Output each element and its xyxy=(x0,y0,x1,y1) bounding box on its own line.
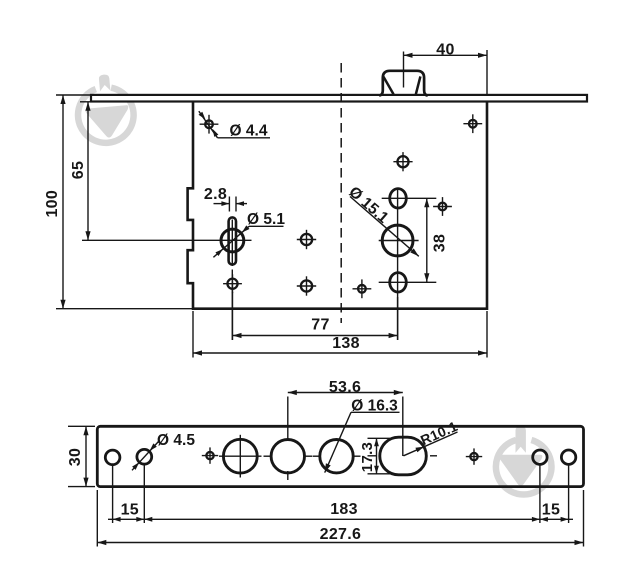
dimension 15 left arrows xyxy=(113,517,121,522)
dimension 65 line xyxy=(87,102,89,241)
dimension 30 extension bottom xyxy=(68,486,95,488)
svg-text:2.8: 2.8 xyxy=(204,186,227,203)
latch bevel left edge xyxy=(383,77,393,95)
watermark logo top-left xyxy=(75,72,136,145)
cylinder large circle Ø15.1 xyxy=(382,225,413,256)
plate hole C2 centerline xyxy=(143,464,145,523)
latch bevel right edge xyxy=(416,76,421,94)
svg-text:40: 40 xyxy=(436,42,454,59)
dimension 38 arrows xyxy=(424,198,429,207)
dimension 77 extension right xyxy=(397,297,399,340)
dimension 2.8 extension lines xyxy=(228,197,230,212)
hole crosshair H2 top-right xyxy=(469,120,477,128)
svg-text:53.6: 53.6 xyxy=(329,379,361,396)
dimension 30 line xyxy=(85,426,87,486)
dimension 17.3 arrows xyxy=(374,438,379,446)
dimension 227.6 extension right xyxy=(583,490,585,547)
label R10.1 leader xyxy=(404,432,458,456)
dimension 65 extension top xyxy=(80,101,95,103)
svg-text:227.6: 227.6 xyxy=(320,526,362,543)
svg-text:Ø 5.1: Ø 5.1 xyxy=(247,211,285,228)
label Ø5.1 leader xyxy=(213,226,249,257)
dimension 77 arrows xyxy=(233,333,242,338)
oval hole bottom xyxy=(390,273,407,292)
keyhole circle xyxy=(221,229,244,252)
centerline horizontal big circle xyxy=(379,240,419,242)
dimension 38 line xyxy=(426,198,428,282)
dimension 53.6 extension left xyxy=(287,397,289,441)
dimension 100 extension bottom xyxy=(56,308,193,310)
plate hole C1 left end xyxy=(105,450,120,465)
dimension 227.6 arrows xyxy=(97,540,106,545)
plate hole C8 centerline xyxy=(539,464,541,523)
keyhole slot xyxy=(229,217,236,264)
dimension 138 line xyxy=(193,352,487,354)
keyhole vertical centerline xyxy=(231,220,233,267)
centerline vertical right column xyxy=(397,188,399,340)
plate hole C6 large (Ø16.3) xyxy=(320,440,353,473)
latch centerline xyxy=(403,52,405,88)
svg-text:Ø 4.5: Ø 4.5 xyxy=(157,432,195,449)
plate hole C5 large xyxy=(271,440,304,473)
label Ø4.5 leader xyxy=(132,442,159,471)
svg-text:65: 65 xyxy=(70,161,87,179)
svg-text:30: 30 xyxy=(67,448,84,466)
svg-text:77: 77 xyxy=(311,316,329,333)
hole crosshair H5 (follower upper) xyxy=(301,234,312,245)
plate hole C2 (Ø4.5) xyxy=(137,449,152,464)
label Ø15.1 leader xyxy=(350,197,419,257)
svg-text:138: 138 xyxy=(332,335,360,352)
dimension 30 extension top xyxy=(68,425,95,427)
dashed centerline of cylinder axis xyxy=(340,63,342,323)
dimension 30 arrows xyxy=(83,426,88,435)
dimension 77 line xyxy=(233,335,398,337)
plate hole C9 xyxy=(561,450,575,464)
dimension 227.6 line xyxy=(97,542,583,544)
plate slot oval (R10.1) xyxy=(380,437,427,475)
dimension 100 arrows xyxy=(60,95,65,104)
dimension 17.3 extension bottom xyxy=(368,473,395,475)
plate hole C8 xyxy=(533,450,547,464)
faceplate (side view bar) xyxy=(91,95,587,102)
oval hole top (Ø15.1 top) xyxy=(390,189,407,208)
svg-text:38: 38 xyxy=(431,234,448,252)
centerline horizontal bottom oval / 38 extension xyxy=(379,281,437,283)
label Ø16.3 leader xyxy=(325,412,351,472)
hole crosshair H6 (follower lower) xyxy=(301,280,312,291)
plate hole C7 crosshair xyxy=(470,453,477,460)
dimension 53.6 extension right xyxy=(402,397,404,457)
dimension 138 extension right xyxy=(486,311,488,358)
dimension 17.3 extension top xyxy=(368,437,395,439)
svg-text:15: 15 xyxy=(542,501,560,518)
dimension 183 arrows xyxy=(144,517,152,522)
dimension 40 line xyxy=(404,54,488,56)
hole crosshair H3 xyxy=(397,156,408,167)
hole crosshair H8 below keyhole xyxy=(227,279,237,289)
svg-text:183: 183 xyxy=(330,501,358,518)
plate hole C1 centerline xyxy=(112,464,114,523)
dimension 138 extension left xyxy=(192,311,194,358)
svg-text:Ø 4.4: Ø 4.4 xyxy=(230,122,268,139)
plate hole C4 large xyxy=(223,439,257,473)
dimension 77 extension left xyxy=(232,292,234,340)
plate hole C9 centerline xyxy=(568,464,570,523)
keyhole horizontal centerline / 65 extension xyxy=(82,239,252,241)
dimension 2.8 arrows and tails xyxy=(214,203,230,205)
dimension 15 right arrows xyxy=(540,517,548,522)
dimension 65 arrows xyxy=(85,102,90,111)
svg-text:17.3: 17.3 xyxy=(359,442,376,472)
dimension 227.6 extension left xyxy=(96,490,98,547)
label Ø4.4 leader xyxy=(199,111,218,138)
hole crosshair H7 xyxy=(358,285,366,293)
dimension 53.6 line xyxy=(288,392,403,394)
centerline horizontal top oval / 38 extension xyxy=(382,197,437,199)
dimension 53.6 arrows xyxy=(288,390,297,395)
dimension 40 extension right xyxy=(486,50,488,94)
dimension 100 line xyxy=(62,95,64,309)
plate hole C3 crosshair xyxy=(206,452,213,459)
dimension 15-183-15 line xyxy=(108,518,573,520)
svg-text:Ø 16.3: Ø 16.3 xyxy=(351,398,398,415)
hole crosshair H4 xyxy=(439,203,447,211)
dimension 17.3 line xyxy=(376,438,378,474)
hole crosshair H1 (Ø4.4) xyxy=(205,120,213,128)
svg-text:100: 100 xyxy=(44,190,61,218)
watermark logo bottom-right xyxy=(496,426,552,494)
dimension 138 arrows xyxy=(193,350,202,355)
latch bolt head xyxy=(379,71,428,96)
faceplate front view plate xyxy=(97,426,583,486)
svg-text:15: 15 xyxy=(121,501,139,518)
dimension 40 arrows xyxy=(404,53,413,58)
dimension 100 extension top xyxy=(56,94,97,96)
lock body outline xyxy=(188,102,487,308)
